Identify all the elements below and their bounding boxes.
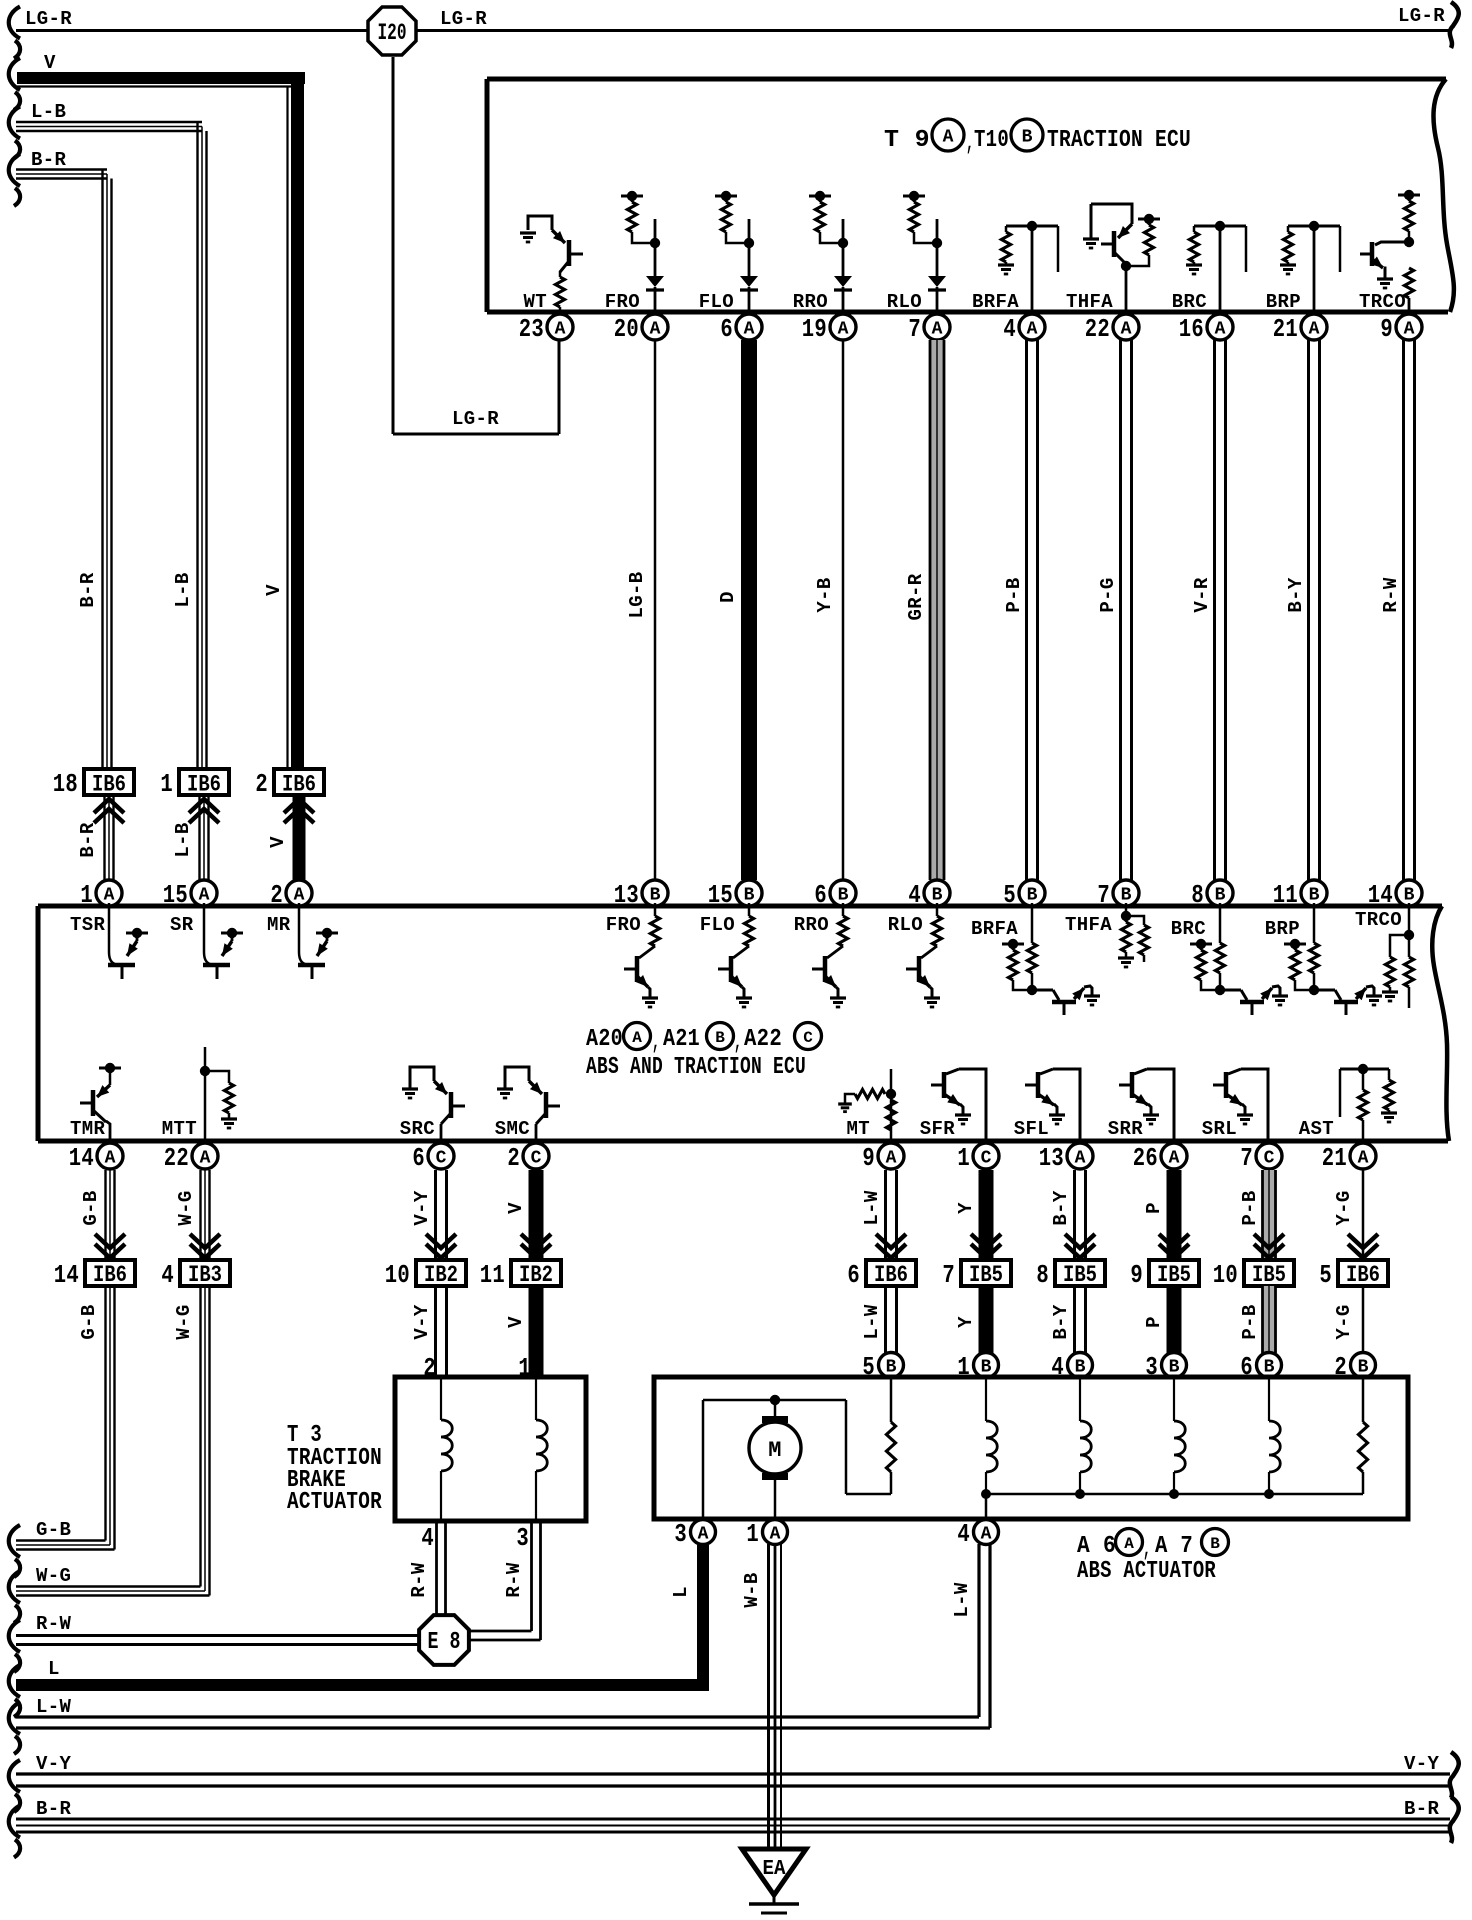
svg-text:B: B <box>1309 886 1320 906</box>
svg-text:A: A <box>1124 1535 1134 1553</box>
svg-text:4: 4 <box>1003 314 1016 344</box>
svg-text:TMR: TMR <box>70 1118 106 1140</box>
svg-text:19: 19 <box>802 314 827 344</box>
svg-text:A 6: A 6 <box>1077 1533 1116 1560</box>
svg-text:6: 6 <box>720 314 733 344</box>
svg-text:A: A <box>105 1149 116 1169</box>
svg-text:9: 9 <box>1380 314 1393 344</box>
svg-text:Y-G: Y-G <box>1333 1190 1355 1225</box>
svg-text:V-R: V-R <box>1191 577 1213 613</box>
svg-text:T10: T10 <box>974 127 1009 154</box>
svg-text:IB6: IB6 <box>92 772 126 798</box>
svg-text:I20: I20 <box>378 20 407 46</box>
svg-text:SRC: SRC <box>400 1118 435 1140</box>
svg-text:E 8: E 8 <box>428 1629 461 1656</box>
svg-text:5: 5 <box>1319 1260 1332 1290</box>
svg-text:13: 13 <box>614 880 639 910</box>
svg-text:22: 22 <box>1085 314 1110 344</box>
svg-text:15: 15 <box>163 880 188 910</box>
svg-text:G-B: G-B <box>78 1304 100 1339</box>
svg-text:B: B <box>715 1029 725 1047</box>
svg-text:23: 23 <box>519 314 544 344</box>
svg-text:8: 8 <box>1191 880 1204 910</box>
svg-text:A 7: A 7 <box>1155 1533 1193 1560</box>
svg-text:LG-R: LG-R <box>25 8 72 30</box>
svg-text:BRC: BRC <box>1171 918 1206 940</box>
svg-text:V: V <box>44 52 56 74</box>
svg-text:MR: MR <box>267 914 291 936</box>
svg-text:V: V <box>263 584 285 596</box>
svg-text:A: A <box>199 886 210 906</box>
svg-text:IB3: IB3 <box>188 1262 222 1288</box>
svg-text:7: 7 <box>908 314 921 344</box>
svg-text:A: A <box>200 1149 211 1169</box>
svg-text:IB6: IB6 <box>93 1262 127 1288</box>
svg-text:21: 21 <box>1322 1143 1347 1173</box>
svg-text:6: 6 <box>847 1260 860 1290</box>
svg-text:1: 1 <box>746 1519 759 1549</box>
svg-text:1: 1 <box>160 769 173 799</box>
svg-text:11: 11 <box>480 1260 505 1290</box>
svg-text:IB6: IB6 <box>282 772 316 798</box>
svg-text:R-W: R-W <box>1380 577 1402 613</box>
svg-text:R-W: R-W <box>503 1562 525 1598</box>
svg-text:MTT: MTT <box>162 1118 197 1140</box>
svg-text:IB5: IB5 <box>1252 1262 1286 1288</box>
svg-text:SRL: SRL <box>1202 1118 1237 1140</box>
svg-text:B: B <box>1022 127 1033 147</box>
svg-text:A22: A22 <box>744 1026 782 1053</box>
svg-text:ACTUATOR: ACTUATOR <box>287 1489 382 1516</box>
svg-text:14: 14 <box>54 1260 79 1290</box>
svg-text:T 9: T 9 <box>884 127 930 154</box>
svg-text:L: L <box>670 1586 692 1598</box>
svg-text:BRP: BRP <box>1266 291 1301 313</box>
svg-text:IB5: IB5 <box>1157 1262 1191 1288</box>
svg-text:C: C <box>531 1149 542 1169</box>
svg-text:26: 26 <box>1133 1143 1158 1173</box>
svg-text:V-Y: V-Y <box>411 1304 433 1340</box>
svg-text:7: 7 <box>1240 1143 1253 1173</box>
svg-text:EA: EA <box>763 1858 786 1881</box>
svg-text:7: 7 <box>1097 880 1110 910</box>
svg-text:14: 14 <box>69 1143 94 1173</box>
svg-text:A: A <box>1358 1149 1369 1169</box>
svg-text:10: 10 <box>385 1260 410 1290</box>
svg-text:THFA: THFA <box>1066 291 1113 313</box>
svg-text:C: C <box>436 1149 447 1169</box>
svg-text:A: A <box>1075 1149 1086 1169</box>
svg-text:A: A <box>1215 320 1226 340</box>
svg-text:A: A <box>1121 320 1132 340</box>
svg-text:RRO: RRO <box>794 914 829 936</box>
svg-text:16: 16 <box>1179 314 1204 344</box>
svg-text:Y-B: Y-B <box>814 577 836 612</box>
svg-text:3: 3 <box>674 1519 687 1549</box>
svg-text:10: 10 <box>1213 1260 1238 1290</box>
svg-text:G-B: G-B <box>80 1190 102 1225</box>
svg-text:V-Y: V-Y <box>36 1753 72 1775</box>
svg-text:4: 4 <box>908 880 921 910</box>
svg-text:L-W: L-W <box>36 1696 72 1718</box>
svg-text:BRC: BRC <box>1172 291 1207 313</box>
svg-text:P: P <box>1143 1202 1165 1214</box>
svg-text:A: A <box>1169 1149 1180 1169</box>
svg-text:18: 18 <box>53 769 78 799</box>
svg-text:4: 4 <box>421 1523 434 1553</box>
svg-text:B-R: B-R <box>31 149 67 171</box>
svg-text:IB5: IB5 <box>969 1262 1003 1288</box>
svg-text:SRR: SRR <box>1108 1118 1144 1140</box>
svg-text:L-B: L-B <box>172 822 194 857</box>
svg-text:SR: SR <box>170 914 194 936</box>
svg-text:SFR: SFR <box>920 1118 956 1140</box>
svg-text:2: 2 <box>507 1143 520 1173</box>
svg-text:L-B: L-B <box>31 101 66 123</box>
svg-text:21: 21 <box>1273 314 1298 344</box>
svg-text:Y-G: Y-G <box>1333 1304 1355 1339</box>
svg-text:WT: WT <box>523 291 547 313</box>
svg-text:V: V <box>505 1202 527 1214</box>
svg-text:A: A <box>838 320 849 340</box>
svg-text:Y: Y <box>955 1316 977 1328</box>
svg-text:LG-R: LG-R <box>440 8 487 30</box>
svg-text:9: 9 <box>1130 1260 1143 1290</box>
svg-text:V: V <box>267 836 289 848</box>
svg-text:W-G: W-G <box>36 1565 71 1587</box>
svg-text:4: 4 <box>161 1260 174 1290</box>
svg-text:MT: MT <box>846 1118 870 1140</box>
svg-text:,: , <box>734 1029 742 1056</box>
svg-text:A: A <box>650 320 661 340</box>
svg-text:B: B <box>744 886 755 906</box>
svg-text:P: P <box>1143 1316 1165 1328</box>
svg-text:FLO: FLO <box>699 291 734 313</box>
svg-text:13: 13 <box>1039 1143 1064 1173</box>
svg-text:15: 15 <box>708 880 733 910</box>
svg-text:,: , <box>652 1029 660 1056</box>
svg-text:B-Y: B-Y <box>1050 1304 1072 1340</box>
svg-text:L-W: L-W <box>861 1304 883 1340</box>
svg-text:L-W: L-W <box>951 1582 973 1618</box>
svg-text:B: B <box>1404 886 1415 906</box>
svg-text:B: B <box>1215 886 1226 906</box>
svg-text:THFA: THFA <box>1065 914 1112 936</box>
svg-text:BRFA: BRFA <box>972 291 1019 313</box>
svg-text:W-G: W-G <box>175 1190 197 1225</box>
svg-text:LG-B: LG-B <box>626 571 648 618</box>
svg-text:B-R: B-R <box>1404 1798 1440 1820</box>
svg-text:W-B: W-B <box>741 1572 763 1607</box>
svg-text:4: 4 <box>957 1519 970 1549</box>
svg-text:2: 2 <box>255 769 268 799</box>
svg-text:FLO: FLO <box>700 914 735 936</box>
svg-text:A: A <box>1027 320 1038 340</box>
svg-text:G-B: G-B <box>36 1519 71 1541</box>
svg-text:ABS ACTUATOR: ABS ACTUATOR <box>1077 1558 1216 1585</box>
svg-text:B: B <box>838 886 849 906</box>
svg-text:V-Y: V-Y <box>411 1190 433 1226</box>
svg-text:D: D <box>717 591 739 603</box>
svg-text:L-W: L-W <box>861 1190 883 1226</box>
svg-text:14: 14 <box>1368 880 1393 910</box>
svg-text:11: 11 <box>1273 880 1298 910</box>
svg-text:B-R: B-R <box>36 1798 72 1820</box>
svg-text:1: 1 <box>80 880 93 910</box>
svg-text:V: V <box>505 1316 527 1328</box>
svg-text:A: A <box>886 1149 897 1169</box>
svg-text:R-W: R-W <box>408 1562 430 1598</box>
svg-text:A: A <box>943 127 954 147</box>
svg-text:IB5: IB5 <box>1063 1262 1097 1288</box>
svg-text:A: A <box>1404 320 1415 340</box>
svg-text:AST: AST <box>1299 1118 1334 1140</box>
svg-text:P-G: P-G <box>1097 577 1119 612</box>
svg-text:R-W: R-W <box>36 1613 72 1635</box>
svg-text:6: 6 <box>814 880 827 910</box>
svg-text:FRO: FRO <box>605 291 640 313</box>
svg-text:SFL: SFL <box>1014 1118 1049 1140</box>
svg-text:B-R: B-R <box>77 822 99 858</box>
svg-text:A: A <box>744 320 755 340</box>
svg-text:SMC: SMC <box>495 1118 530 1140</box>
svg-text:GR-R: GR-R <box>905 573 927 620</box>
svg-text:L-B: L-B <box>172 572 194 607</box>
svg-text:M: M <box>768 1438 782 1463</box>
svg-text:A21: A21 <box>663 1026 700 1053</box>
svg-text:BRP: BRP <box>1265 918 1300 940</box>
svg-text:B: B <box>1210 1535 1220 1553</box>
svg-text:B-R: B-R <box>77 572 99 608</box>
svg-text:B-Y: B-Y <box>1285 577 1307 613</box>
svg-text:6: 6 <box>412 1143 425 1173</box>
svg-text:9: 9 <box>862 1143 875 1173</box>
svg-text:Y: Y <box>955 1202 977 1214</box>
svg-text:A: A <box>294 886 305 906</box>
svg-text:B: B <box>650 886 661 906</box>
svg-text:TRCO: TRCO <box>1359 291 1406 313</box>
svg-text:A: A <box>981 1525 992 1545</box>
svg-text:3: 3 <box>516 1523 529 1553</box>
svg-text:RLO: RLO <box>888 914 923 936</box>
svg-text:C: C <box>803 1029 813 1047</box>
svg-text:20: 20 <box>614 314 639 344</box>
svg-text:1: 1 <box>957 1143 970 1173</box>
svg-text:L: L <box>48 1658 60 1680</box>
svg-text:P-B: P-B <box>1239 1304 1261 1339</box>
svg-text:A20: A20 <box>586 1026 623 1053</box>
svg-text:BRFA: BRFA <box>971 918 1018 940</box>
svg-text:V-Y: V-Y <box>1404 1753 1440 1775</box>
svg-text:W-G: W-G <box>173 1304 195 1339</box>
svg-text:A: A <box>770 1525 781 1545</box>
svg-text:22: 22 <box>164 1143 189 1173</box>
svg-text:RLO: RLO <box>887 291 922 313</box>
svg-text:FRO: FRO <box>606 914 641 936</box>
svg-text:IB2: IB2 <box>424 1262 458 1288</box>
svg-text:TRCO: TRCO <box>1355 909 1402 931</box>
svg-text:A: A <box>555 320 566 340</box>
svg-text:IB2: IB2 <box>519 1262 553 1288</box>
svg-text:IB6: IB6 <box>187 772 221 798</box>
svg-text:B: B <box>1027 886 1038 906</box>
svg-text:A: A <box>632 1029 642 1047</box>
svg-text:2: 2 <box>270 880 283 910</box>
svg-text:A: A <box>104 886 115 906</box>
svg-text:5: 5 <box>1003 880 1016 910</box>
svg-text:B-Y: B-Y <box>1050 1190 1072 1226</box>
svg-text:B: B <box>932 886 943 906</box>
svg-text:A: A <box>932 320 943 340</box>
svg-text:IB6: IB6 <box>1346 1262 1380 1288</box>
svg-text:7: 7 <box>942 1260 955 1290</box>
svg-text:8: 8 <box>1036 1260 1049 1290</box>
svg-text:TSR: TSR <box>70 914 106 936</box>
svg-text:,: , <box>966 130 974 157</box>
svg-text:C: C <box>1264 1149 1275 1169</box>
svg-text:C: C <box>981 1149 992 1169</box>
svg-text:TRACTION ECU: TRACTION ECU <box>1047 127 1191 154</box>
svg-text:B: B <box>1121 886 1132 906</box>
svg-text:P-B: P-B <box>1003 577 1025 612</box>
svg-text:LG-R: LG-R <box>1398 5 1445 27</box>
svg-text:IB6: IB6 <box>874 1262 908 1288</box>
svg-text:ABS AND TRACTION ECU: ABS AND TRACTION ECU <box>586 1054 806 1081</box>
svg-text:P-B: P-B <box>1239 1190 1261 1225</box>
svg-text:LG-R: LG-R <box>452 408 499 430</box>
svg-text:A: A <box>698 1525 709 1545</box>
svg-text:RRO: RRO <box>793 291 828 313</box>
svg-text:A: A <box>1309 320 1320 340</box>
